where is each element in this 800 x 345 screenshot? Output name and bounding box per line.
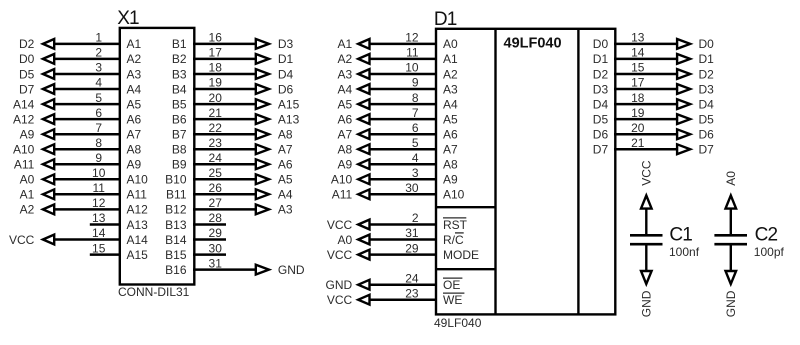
wire D1 pin 24 bbox=[371, 283, 438, 286]
svg-text:A6: A6 bbox=[278, 158, 293, 172]
capacitor C2 plates bbox=[714, 235, 747, 244]
svg-text:7: 7 bbox=[412, 106, 419, 120]
wire D1 pin 12 bbox=[371, 43, 438, 46]
svg-text:D7: D7 bbox=[699, 143, 715, 157]
svg-text:A5: A5 bbox=[443, 112, 458, 126]
svg-text:D5: D5 bbox=[593, 112, 609, 126]
svg-text:31: 31 bbox=[209, 256, 223, 270]
svg-text:12: 12 bbox=[405, 31, 419, 45]
wire X1 pin 13 stub bbox=[90, 223, 121, 226]
svg-text:D2: D2 bbox=[593, 67, 609, 81]
svg-text:A7: A7 bbox=[278, 143, 293, 157]
wire C1 bottom bbox=[645, 246, 647, 272]
svg-text:A0: A0 bbox=[338, 233, 353, 247]
wire D1 pin 30 bbox=[371, 193, 438, 196]
svg-text:2: 2 bbox=[95, 46, 102, 60]
svg-text:28: 28 bbox=[209, 211, 223, 225]
svg-text:8: 8 bbox=[95, 136, 102, 150]
svg-text:18: 18 bbox=[631, 91, 645, 105]
svg-text:A11: A11 bbox=[14, 158, 35, 172]
svg-text:A2: A2 bbox=[443, 67, 458, 81]
svg-text:A10: A10 bbox=[13, 143, 35, 157]
svg-text:5: 5 bbox=[412, 136, 419, 150]
wire X1 pin 9 bbox=[55, 163, 122, 166]
svg-text:A5: A5 bbox=[338, 97, 353, 111]
net terminal A7 (X1 pin 23) bbox=[256, 143, 293, 157]
svg-text:27: 27 bbox=[209, 196, 223, 210]
net terminal D5 (D1 pin 19) bbox=[677, 112, 714, 126]
wire X1 pin 29 stub bbox=[193, 238, 226, 241]
svg-text:25: 25 bbox=[209, 166, 223, 180]
wire D1 pin 23 bbox=[371, 298, 438, 301]
svg-text:A6: A6 bbox=[338, 112, 353, 126]
svg-text:A13: A13 bbox=[127, 218, 149, 232]
net terminal D1 (X1 pin 17) bbox=[256, 52, 294, 66]
svg-text:A10: A10 bbox=[127, 173, 149, 187]
svg-text:11: 11 bbox=[92, 181, 105, 195]
svg-text:A15: A15 bbox=[127, 248, 149, 262]
svg-text:A6: A6 bbox=[443, 128, 458, 142]
svg-text:19: 19 bbox=[209, 76, 223, 90]
svg-text:D4: D4 bbox=[593, 97, 609, 111]
svg-text:13: 13 bbox=[92, 211, 106, 225]
wire D1 pin 19 bbox=[614, 118, 678, 121]
svg-text:14: 14 bbox=[92, 226, 106, 240]
wire X1 pin 31 bbox=[193, 268, 256, 271]
net terminal A3 (X1 pin 27) bbox=[256, 203, 293, 217]
svg-text:24: 24 bbox=[405, 271, 419, 285]
svg-text:GND: GND bbox=[724, 290, 738, 317]
svg-text:31: 31 bbox=[405, 226, 419, 240]
svg-text:30: 30 bbox=[405, 181, 419, 195]
wire X1 pin 2 bbox=[55, 58, 122, 61]
wire X1 pin 22 bbox=[193, 133, 256, 136]
wire D1 pin 2 bbox=[371, 223, 438, 226]
svg-text:7: 7 bbox=[95, 121, 102, 135]
wire X1 pin 28 stub bbox=[193, 223, 226, 226]
net terminal D2 (X1 pin 1) bbox=[19, 37, 54, 51]
svg-text:21: 21 bbox=[631, 136, 645, 150]
wire X1 pin 4 bbox=[55, 88, 122, 91]
svg-text:20: 20 bbox=[631, 121, 645, 135]
net terminal A13 (X1 pin 21) bbox=[256, 112, 300, 126]
svg-text:12: 12 bbox=[92, 196, 106, 210]
svg-text:MODE: MODE bbox=[443, 248, 479, 262]
wire D1 pin 5 bbox=[371, 148, 438, 151]
svg-text:D5: D5 bbox=[19, 67, 35, 81]
net terminal A14 (X1 pin 5) bbox=[13, 97, 54, 111]
net terminal A11 (D1 pin 30) bbox=[332, 188, 370, 202]
wire X1 pin 15 stub bbox=[90, 253, 121, 256]
wire D1 pin 17 bbox=[614, 88, 678, 91]
net terminal A4 (D1 pin 9) bbox=[338, 82, 370, 96]
svg-text:A3: A3 bbox=[338, 67, 353, 81]
wire D1 pin 6 bbox=[371, 133, 438, 136]
wire C1 top bbox=[645, 208, 647, 236]
svg-text:D7: D7 bbox=[19, 82, 35, 96]
svg-text:VCC: VCC bbox=[640, 160, 654, 186]
svg-text:R/C: R/C bbox=[443, 233, 464, 247]
svg-text:B14: B14 bbox=[165, 233, 187, 247]
wire X1 pin 11 bbox=[55, 193, 122, 196]
svg-text:CONN-DIL31: CONN-DIL31 bbox=[118, 285, 190, 299]
svg-text:15: 15 bbox=[92, 241, 106, 255]
svg-text:A2: A2 bbox=[20, 203, 35, 217]
svg-text:A2: A2 bbox=[127, 52, 142, 66]
wire X1 pin 20 bbox=[193, 103, 256, 106]
svg-text:A11: A11 bbox=[127, 188, 148, 202]
svg-text:GND: GND bbox=[278, 263, 305, 277]
wire X1 pin 3 bbox=[55, 73, 122, 76]
net terminal A10 (X1 pin 8) bbox=[13, 143, 54, 157]
wire D1 pin 14 bbox=[614, 58, 678, 61]
overline WE bbox=[443, 292, 464, 294]
wire D1 pin 11 bbox=[371, 58, 438, 61]
svg-text:A0: A0 bbox=[443, 37, 458, 51]
wire D1 pin 31 bbox=[371, 238, 438, 241]
net terminal A9 (D1 pin 4) bbox=[338, 158, 370, 172]
net terminal D6 (D1 pin 20) bbox=[677, 128, 714, 142]
svg-text:15: 15 bbox=[631, 61, 645, 75]
net terminal A11 (X1 pin 9) bbox=[14, 158, 54, 172]
svg-text:B1: B1 bbox=[172, 37, 187, 51]
IC D1 section divider control bbox=[436, 206, 496, 208]
net terminal D0 (X1 pin 2) bbox=[19, 52, 54, 66]
wire C2 top bbox=[730, 208, 732, 236]
wire X1 pin 1 bbox=[55, 43, 122, 46]
svg-text:B12: B12 bbox=[165, 203, 187, 217]
svg-text:A4: A4 bbox=[338, 82, 353, 96]
wire D1 pin 3 bbox=[371, 178, 438, 181]
wire D1 pin 8 bbox=[371, 103, 438, 106]
svg-text:6: 6 bbox=[95, 106, 102, 120]
svg-text:9: 9 bbox=[412, 76, 419, 90]
net terminal A7 (D1 pin 6) bbox=[338, 128, 370, 142]
wire X1 pin 5 bbox=[55, 103, 122, 106]
wire X1 pin 26 bbox=[193, 193, 256, 196]
svg-text:29: 29 bbox=[209, 226, 223, 240]
svg-text:GND: GND bbox=[326, 278, 353, 292]
svg-text:20: 20 bbox=[209, 91, 223, 105]
net terminal D3 (X1 pin 16) bbox=[256, 37, 294, 51]
svg-text:A3: A3 bbox=[127, 67, 142, 81]
net terminal A2 (D1 pin 11) bbox=[338, 52, 370, 66]
svg-text:A15: A15 bbox=[278, 97, 300, 111]
wire D1 pin 13 bbox=[614, 43, 678, 46]
svg-text:A4: A4 bbox=[443, 97, 458, 111]
wire C2 bottom bbox=[730, 246, 732, 272]
svg-text:49LF040: 49LF040 bbox=[504, 36, 562, 52]
svg-text:49LF040: 49LF040 bbox=[434, 316, 482, 330]
svg-text:A4: A4 bbox=[127, 82, 142, 96]
wire X1 pin 8 bbox=[55, 148, 122, 151]
overline OE bbox=[443, 277, 462, 279]
wire X1 pin 25 bbox=[193, 178, 256, 181]
net terminal D1 (D1 pin 14) bbox=[677, 52, 714, 66]
svg-text:D3: D3 bbox=[278, 37, 294, 51]
svg-text:D0: D0 bbox=[699, 37, 715, 51]
net terminal A8 (D1 pin 5) bbox=[338, 143, 370, 157]
svg-text:B2: B2 bbox=[172, 52, 187, 66]
net terminal VCC (D1 pin 29) bbox=[327, 248, 370, 262]
svg-text:D6: D6 bbox=[278, 82, 294, 96]
wire X1 pin 16 bbox=[193, 43, 256, 46]
IC D1 section divider enable bbox=[436, 268, 496, 270]
svg-text:B7: B7 bbox=[172, 128, 187, 142]
svg-text:A8: A8 bbox=[127, 143, 142, 157]
svg-text:B11: B11 bbox=[166, 188, 187, 202]
svg-text:A1: A1 bbox=[127, 37, 142, 51]
svg-text:3: 3 bbox=[95, 61, 102, 75]
svg-text:17: 17 bbox=[631, 76, 645, 90]
wire X1 pin 18 bbox=[193, 73, 256, 76]
svg-text:A7: A7 bbox=[443, 143, 458, 157]
svg-text:2: 2 bbox=[412, 211, 419, 225]
wire D1 pin 20 bbox=[614, 133, 678, 136]
wire X1 pin 17 bbox=[193, 58, 256, 61]
svg-text:A2: A2 bbox=[338, 52, 353, 66]
wire D1 pin 18 bbox=[614, 103, 678, 106]
svg-text:D2: D2 bbox=[699, 67, 715, 81]
svg-text:RST: RST bbox=[443, 218, 468, 232]
svg-text:A0: A0 bbox=[20, 173, 35, 187]
svg-text:C2: C2 bbox=[755, 225, 778, 246]
svg-text:VCC: VCC bbox=[9, 233, 35, 247]
net terminal A1 (D1 pin 12) bbox=[338, 37, 370, 51]
svg-text:18: 18 bbox=[209, 61, 223, 75]
wire D1 pin 15 bbox=[614, 73, 678, 76]
net terminal VCC (D1 pin 23) bbox=[327, 293, 370, 307]
svg-text:6: 6 bbox=[412, 121, 419, 135]
svg-text:B9: B9 bbox=[172, 158, 187, 172]
svg-text:4: 4 bbox=[412, 151, 419, 165]
svg-text:B16: B16 bbox=[165, 263, 187, 277]
svg-text:B5: B5 bbox=[172, 97, 187, 111]
svg-text:10: 10 bbox=[92, 166, 106, 180]
svg-text:17: 17 bbox=[209, 46, 223, 60]
svg-text:D0: D0 bbox=[593, 37, 609, 51]
capacitor C1 plates bbox=[630, 235, 663, 244]
svg-text:21: 21 bbox=[209, 106, 223, 120]
net terminal A15 (X1 pin 20) bbox=[256, 97, 300, 111]
svg-text:D7: D7 bbox=[593, 143, 609, 157]
svg-text:D3: D3 bbox=[699, 82, 715, 96]
svg-text:GND: GND bbox=[640, 290, 654, 317]
wire X1 pin 23 bbox=[193, 148, 256, 151]
svg-text:D5: D5 bbox=[699, 112, 715, 126]
svg-text:24: 24 bbox=[209, 151, 223, 165]
wire X1 pin 12 bbox=[55, 208, 122, 211]
svg-text:A12: A12 bbox=[127, 203, 149, 217]
net terminal D7 (X1 pin 4) bbox=[19, 82, 54, 96]
net terminal GND (X1 pin 31) bbox=[256, 263, 305, 277]
IC D1 body bbox=[436, 29, 615, 315]
net terminal D2 (D1 pin 15) bbox=[677, 67, 714, 81]
svg-text:26: 26 bbox=[209, 181, 223, 195]
svg-text:B13: B13 bbox=[165, 218, 187, 232]
net terminal D7 (D1 pin 21) bbox=[677, 143, 714, 157]
net terminal D5 (X1 pin 3) bbox=[19, 67, 54, 81]
wire X1 pin 27 bbox=[193, 208, 256, 211]
overline C of R/C bbox=[455, 232, 464, 234]
wire X1 pin 10 bbox=[55, 178, 122, 181]
svg-text:A1: A1 bbox=[338, 37, 353, 51]
svg-text:A14: A14 bbox=[127, 233, 149, 247]
net terminal A9 (X1 pin 7) bbox=[20, 128, 55, 142]
svg-text:A7: A7 bbox=[127, 128, 142, 142]
svg-text:4: 4 bbox=[95, 76, 102, 90]
svg-text:1: 1 bbox=[95, 31, 102, 45]
svg-text:14: 14 bbox=[631, 46, 645, 60]
svg-text:A1: A1 bbox=[20, 188, 35, 202]
svg-text:A5: A5 bbox=[127, 97, 142, 111]
wire X1 pin 21 bbox=[193, 118, 256, 121]
svg-text:A3: A3 bbox=[443, 82, 458, 96]
svg-text:A3: A3 bbox=[278, 203, 293, 217]
svg-text:A12: A12 bbox=[13, 112, 35, 126]
svg-text:A9: A9 bbox=[338, 158, 353, 172]
power terminal VCC (C1 top) bbox=[640, 160, 654, 208]
ground terminal GND (C2 bottom) bbox=[724, 271, 738, 317]
svg-text:A7: A7 bbox=[338, 128, 353, 142]
svg-text:A10: A10 bbox=[443, 188, 465, 202]
svg-text:A9: A9 bbox=[443, 173, 458, 187]
net terminal A6 (X1 pin 24) bbox=[256, 158, 293, 172]
net terminal A3 (D1 pin 10) bbox=[338, 67, 370, 81]
wire X1 pin 24 bbox=[193, 163, 256, 166]
svg-text:A11: A11 bbox=[332, 188, 353, 202]
svg-text:22: 22 bbox=[209, 121, 223, 135]
wire D1 pin 21 bbox=[614, 148, 678, 151]
svg-text:13: 13 bbox=[631, 31, 645, 45]
svg-text:A5: A5 bbox=[278, 173, 293, 187]
svg-text:D0: D0 bbox=[19, 52, 35, 66]
wire D1 pin 7 bbox=[371, 118, 438, 121]
wire X1 pin 6 bbox=[55, 118, 122, 121]
svg-text:D6: D6 bbox=[593, 128, 609, 142]
svg-text:23: 23 bbox=[405, 286, 419, 300]
svg-text:VCC: VCC bbox=[327, 248, 353, 262]
net terminal A0 (C2 top) bbox=[724, 171, 738, 209]
svg-text:100pf: 100pf bbox=[754, 245, 785, 259]
wire D1 pin 10 bbox=[371, 73, 438, 76]
svg-text:A1: A1 bbox=[443, 52, 458, 66]
svg-text:A10: A10 bbox=[331, 173, 353, 187]
svg-text:B4: B4 bbox=[172, 82, 187, 96]
wire D1 pin 4 bbox=[371, 163, 438, 166]
wire X1 pin 19 bbox=[193, 88, 256, 91]
IC D1 internal divider left bbox=[494, 29, 496, 314]
svg-text:10: 10 bbox=[405, 61, 419, 75]
svg-text:D3: D3 bbox=[593, 82, 609, 96]
svg-text:A9: A9 bbox=[127, 158, 142, 172]
svg-text:B15: B15 bbox=[165, 248, 187, 262]
svg-text:A8: A8 bbox=[278, 128, 293, 142]
svg-text:5: 5 bbox=[95, 91, 102, 105]
svg-text:A0: A0 bbox=[724, 171, 738, 186]
svg-text:D4: D4 bbox=[699, 97, 715, 111]
net terminal A2 (X1 pin 12) bbox=[20, 203, 55, 217]
ground terminal GND (C1 bottom) bbox=[640, 271, 654, 317]
net terminal A10 (D1 pin 3) bbox=[331, 173, 370, 187]
svg-text:B6: B6 bbox=[172, 112, 187, 126]
svg-text:B10: B10 bbox=[165, 173, 187, 187]
net terminal A12 (X1 pin 6) bbox=[13, 112, 54, 126]
net terminal D6 (X1 pin 19) bbox=[256, 82, 294, 96]
net terminal VCC (X1 pin 14) bbox=[9, 233, 54, 247]
connector X1 body bbox=[120, 28, 195, 285]
svg-text:29: 29 bbox=[405, 241, 419, 255]
svg-text:OE: OE bbox=[443, 278, 460, 292]
net terminal A1 (X1 pin 11) bbox=[20, 188, 55, 202]
svg-text:16: 16 bbox=[209, 31, 223, 45]
net terminal A0 (D1 pin 31) bbox=[338, 233, 370, 247]
svg-text:D1: D1 bbox=[278, 52, 294, 66]
svg-text:30: 30 bbox=[209, 241, 223, 255]
wire X1 pin 14 bbox=[55, 238, 122, 241]
net terminal D4 (D1 pin 18) bbox=[677, 97, 714, 111]
svg-text:9: 9 bbox=[95, 151, 102, 165]
svg-text:WE: WE bbox=[443, 293, 462, 307]
net terminal A4 (X1 pin 26) bbox=[256, 188, 293, 202]
svg-text:19: 19 bbox=[631, 106, 645, 120]
svg-text:B3: B3 bbox=[172, 67, 187, 81]
svg-text:23: 23 bbox=[209, 136, 223, 150]
wire X1 pin 30 stub bbox=[193, 253, 226, 256]
svg-text:A8: A8 bbox=[338, 143, 353, 157]
svg-text:A8: A8 bbox=[443, 158, 458, 172]
svg-text:A13: A13 bbox=[278, 112, 300, 126]
svg-text:D4: D4 bbox=[278, 67, 294, 81]
wire X1 pin 7 bbox=[55, 133, 122, 136]
net terminal D4 (X1 pin 18) bbox=[256, 67, 294, 81]
svg-text:A6: A6 bbox=[127, 112, 142, 126]
svg-text:VCC: VCC bbox=[327, 293, 353, 307]
svg-text:100nf: 100nf bbox=[669, 245, 700, 259]
net terminal GND (D1 pin 24) bbox=[326, 278, 370, 292]
net terminal VCC (D1 pin 2) bbox=[327, 218, 370, 232]
net terminal A5 (D1 pin 8) bbox=[338, 97, 370, 111]
svg-text:C1: C1 bbox=[669, 225, 692, 246]
wire D1 pin 9 bbox=[371, 88, 438, 91]
net terminal D0 (D1 pin 13) bbox=[677, 37, 714, 51]
svg-text:D1: D1 bbox=[434, 9, 457, 30]
svg-text:3: 3 bbox=[412, 166, 419, 180]
svg-text:D2: D2 bbox=[19, 37, 35, 51]
svg-text:A4: A4 bbox=[278, 188, 293, 202]
svg-text:D1: D1 bbox=[699, 52, 715, 66]
net terminal A6 (D1 pin 7) bbox=[338, 112, 370, 126]
svg-text:X1: X1 bbox=[117, 8, 139, 29]
net terminal A5 (X1 pin 25) bbox=[256, 173, 293, 187]
svg-text:A14: A14 bbox=[13, 97, 35, 111]
net terminal D3 (D1 pin 17) bbox=[677, 82, 714, 96]
svg-text:D1: D1 bbox=[593, 52, 609, 66]
svg-text:D6: D6 bbox=[699, 128, 715, 142]
IC D1 internal divider right bbox=[577, 29, 579, 314]
svg-text:VCC: VCC bbox=[327, 218, 353, 232]
net terminal A0 (X1 pin 10) bbox=[20, 173, 55, 187]
net terminal A8 (X1 pin 22) bbox=[256, 128, 293, 142]
svg-text:8: 8 bbox=[412, 91, 419, 105]
svg-text:B8: B8 bbox=[172, 143, 187, 157]
svg-text:A9: A9 bbox=[20, 128, 35, 142]
wire D1 pin 29 bbox=[371, 253, 438, 256]
overline RST bbox=[443, 217, 466, 219]
svg-text:11: 11 bbox=[406, 46, 419, 60]
